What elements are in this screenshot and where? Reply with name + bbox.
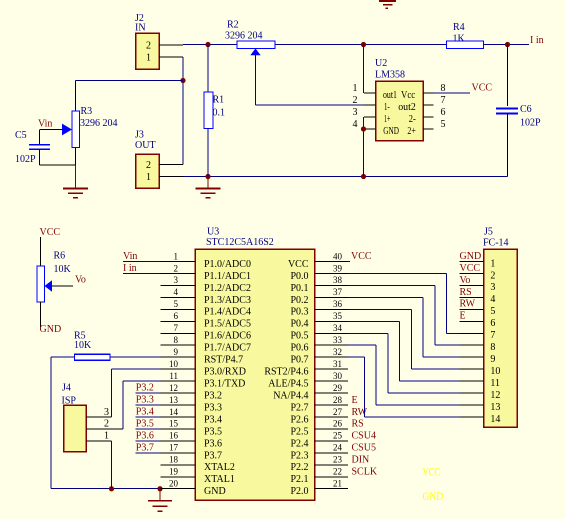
svg-text:P0.6: P0.6 — [290, 343, 308, 354]
svg-text:28: 28 — [333, 395, 343, 405]
svg-text:P2.1: P2.1 — [290, 474, 308, 485]
svg-text:21: 21 — [333, 479, 342, 489]
svg-text:14: 14 — [169, 407, 179, 417]
svg-text:P1.3/ADC3: P1.3/ADC3 — [204, 295, 251, 306]
svg-text:10K: 10K — [74, 340, 92, 351]
svg-text:24: 24 — [333, 443, 343, 453]
svg-text:2: 2 — [146, 40, 151, 51]
svg-text:1: 1 — [174, 251, 179, 261]
svg-text:7: 7 — [441, 95, 446, 106]
svg-text:P1.7/ADC7: P1.7/ADC7 — [204, 343, 251, 354]
svg-text:P2.3: P2.3 — [290, 450, 308, 461]
svg-text:38: 38 — [333, 275, 343, 285]
svg-text:0.1: 0.1 — [213, 108, 226, 119]
svg-text:3296 204: 3296 204 — [80, 118, 118, 129]
svg-text:33: 33 — [333, 335, 343, 345]
svg-text:P0.1: P0.1 — [290, 283, 308, 294]
svg-text:12: 12 — [490, 390, 500, 401]
svg-text:J4: J4 — [62, 383, 71, 394]
svg-text:6: 6 — [441, 107, 446, 118]
svg-text:23: 23 — [333, 455, 343, 465]
svg-text:IN: IN — [135, 23, 146, 34]
svg-text:P3.5: P3.5 — [136, 418, 154, 429]
svg-text:RS: RS — [352, 419, 364, 430]
svg-text:4: 4 — [490, 294, 495, 305]
svg-text:4: 4 — [174, 287, 179, 297]
svg-text:32: 32 — [333, 347, 342, 357]
svg-text:11: 11 — [490, 378, 500, 389]
svg-text:Vin: Vin — [123, 251, 137, 262]
svg-text:15: 15 — [169, 419, 179, 429]
svg-text:35: 35 — [333, 311, 343, 321]
svg-text:6: 6 — [174, 311, 179, 321]
svg-text:P1.5/ADC5: P1.5/ADC5 — [204, 319, 251, 330]
svg-text:P3.2: P3.2 — [136, 382, 154, 393]
svg-text:12: 12 — [169, 383, 178, 393]
svg-text:25: 25 — [333, 431, 343, 441]
svg-text:37: 37 — [333, 287, 343, 297]
svg-text:3: 3 — [104, 407, 109, 418]
svg-text:1: 1 — [490, 258, 495, 269]
svg-text:1: 1 — [146, 52, 151, 63]
svg-text:P3.6: P3.6 — [136, 430, 154, 441]
svg-text:102P: 102P — [520, 118, 541, 129]
svg-text:VCC: VCC — [472, 82, 493, 93]
svg-text:3: 3 — [353, 107, 358, 118]
svg-text:RW: RW — [460, 299, 476, 310]
svg-text:VCC: VCC — [351, 251, 372, 262]
svg-text:E: E — [460, 311, 466, 322]
svg-text:2: 2 — [353, 95, 358, 106]
svg-text:8: 8 — [174, 335, 179, 345]
svg-text:VCC: VCC — [288, 259, 309, 270]
svg-text:1+: 1+ — [384, 114, 391, 125]
svg-text:5: 5 — [490, 306, 495, 317]
svg-text:14: 14 — [490, 414, 500, 425]
svg-text:1-: 1- — [384, 102, 390, 113]
svg-text:GND: GND — [423, 491, 444, 503]
svg-text:P3.7: P3.7 — [204, 450, 222, 461]
svg-text:R3: R3 — [81, 106, 93, 117]
svg-text:SCLK: SCLK — [352, 467, 378, 478]
svg-text:2+: 2+ — [407, 126, 416, 137]
svg-text:22: 22 — [333, 467, 342, 477]
svg-text:R1: R1 — [213, 95, 225, 106]
svg-text:GND: GND — [40, 324, 62, 335]
svg-text:P1.1/ADC1: P1.1/ADC1 — [204, 271, 251, 282]
svg-text:P3.3: P3.3 — [136, 394, 154, 405]
svg-text:P0.5: P0.5 — [290, 331, 308, 342]
svg-text:40: 40 — [333, 251, 343, 261]
svg-text:P3.1/TXD: P3.1/TXD — [204, 379, 245, 390]
svg-text:P2.5: P2.5 — [290, 426, 308, 437]
svg-text:P1.0/ADC0: P1.0/ADC0 — [204, 259, 251, 270]
svg-text:GND: GND — [204, 486, 226, 497]
svg-text:out1: out1 — [383, 90, 397, 101]
svg-text:16: 16 — [169, 431, 179, 441]
svg-text:2: 2 — [146, 160, 151, 171]
svg-text:10: 10 — [169, 359, 179, 369]
svg-text:8: 8 — [490, 342, 495, 353]
svg-text:20: 20 — [169, 479, 179, 489]
svg-text:5: 5 — [174, 299, 179, 309]
svg-text:P0.7: P0.7 — [290, 355, 308, 366]
svg-text:P2.2: P2.2 — [290, 462, 308, 473]
svg-text:GND: GND — [460, 251, 482, 262]
svg-text:29: 29 — [333, 383, 343, 393]
svg-text:26: 26 — [333, 419, 343, 429]
svg-text:NA/P4.4: NA/P4.4 — [273, 390, 308, 401]
svg-text:36: 36 — [333, 299, 343, 309]
svg-text:P2.6: P2.6 — [290, 414, 308, 425]
svg-text:2-: 2- — [409, 114, 416, 125]
svg-text:9: 9 — [174, 347, 179, 357]
svg-text:1: 1 — [104, 431, 109, 442]
svg-text:31: 31 — [333, 359, 342, 369]
svg-text:2: 2 — [104, 419, 109, 430]
svg-text:P3.2: P3.2 — [204, 390, 222, 401]
svg-text:P2.0: P2.0 — [290, 486, 308, 497]
svg-text:10: 10 — [490, 366, 500, 377]
svg-text:CSU4: CSU4 — [352, 431, 376, 442]
svg-text:3: 3 — [490, 282, 495, 293]
svg-text:STC12C5A16S2: STC12C5A16S2 — [206, 237, 274, 248]
svg-text:2: 2 — [490, 270, 495, 281]
svg-text:Vo: Vo — [75, 275, 86, 286]
svg-text:P2.7: P2.7 — [290, 402, 308, 413]
svg-text:8: 8 — [441, 83, 446, 94]
svg-text:P1.6/ADC6: P1.6/ADC6 — [204, 331, 251, 342]
svg-text:P3.4: P3.4 — [204, 414, 222, 425]
svg-text:GND: GND — [383, 126, 399, 137]
svg-text:VCC: VCC — [460, 263, 481, 274]
svg-text:RST2/P4.6: RST2/P4.6 — [264, 367, 308, 378]
svg-text:E: E — [352, 395, 358, 406]
svg-text:VCC: VCC — [40, 227, 61, 238]
svg-text:C5: C5 — [15, 130, 27, 141]
svg-text:27: 27 — [333, 407, 343, 417]
svg-text:P3.3: P3.3 — [204, 402, 222, 413]
svg-text:DIN: DIN — [352, 455, 370, 466]
svg-text:out2: out2 — [398, 102, 416, 113]
svg-text:XTAL1: XTAL1 — [204, 474, 235, 485]
svg-text:R6: R6 — [54, 251, 66, 262]
svg-text:FC-14: FC-14 — [483, 238, 509, 249]
svg-text:P0.4: P0.4 — [290, 319, 308, 330]
svg-text:4: 4 — [353, 119, 358, 130]
svg-text:P0.2: P0.2 — [290, 295, 308, 306]
svg-text:P2.4: P2.4 — [290, 438, 308, 449]
svg-text:P0.0: P0.0 — [290, 271, 308, 282]
svg-text:10K: 10K — [54, 264, 72, 275]
svg-text:C6: C6 — [520, 104, 532, 115]
svg-text:19: 19 — [169, 467, 179, 477]
svg-text:I in: I in — [530, 35, 544, 46]
svg-text:17: 17 — [169, 443, 179, 453]
svg-text:R4: R4 — [453, 22, 465, 33]
svg-text:J3: J3 — [135, 130, 144, 141]
svg-text:7: 7 — [490, 330, 495, 341]
svg-text:1: 1 — [146, 172, 151, 183]
svg-text:7: 7 — [174, 323, 179, 333]
svg-text:Vo: Vo — [460, 275, 471, 286]
svg-text:P3.5: P3.5 — [204, 426, 222, 437]
svg-text:U3: U3 — [207, 227, 219, 238]
svg-text:RW: RW — [352, 407, 368, 418]
svg-text:13: 13 — [490, 402, 500, 413]
svg-text:P0.3: P0.3 — [290, 307, 308, 318]
svg-text:RST/P4.7: RST/P4.7 — [204, 355, 243, 366]
svg-text:30: 30 — [333, 371, 343, 381]
svg-text:2: 2 — [174, 263, 179, 273]
svg-text:Vin: Vin — [38, 118, 52, 129]
svg-text:U2: U2 — [375, 58, 387, 69]
svg-text:RS: RS — [460, 287, 472, 298]
svg-text:LM358: LM358 — [375, 70, 405, 81]
svg-text:P3.0/RXD: P3.0/RXD — [204, 367, 246, 378]
svg-text:102P: 102P — [15, 154, 36, 165]
svg-text:9: 9 — [490, 354, 495, 365]
svg-text:6: 6 — [490, 318, 495, 329]
svg-text:18: 18 — [169, 455, 179, 465]
svg-text:ALE/P4.5: ALE/P4.5 — [268, 379, 308, 390]
svg-text:J5: J5 — [484, 227, 493, 238]
svg-text:R2: R2 — [227, 20, 239, 31]
svg-text:P3.6: P3.6 — [204, 438, 222, 449]
svg-text:Vcc: Vcc — [401, 90, 416, 101]
svg-text:XTAL2: XTAL2 — [204, 462, 235, 473]
svg-text:P1.4/ADC4: P1.4/ADC4 — [204, 307, 251, 318]
svg-text:3296 204: 3296 204 — [225, 31, 263, 42]
svg-text:OUT: OUT — [135, 140, 156, 151]
svg-text:P3.4: P3.4 — [136, 406, 154, 417]
svg-text:I in: I in — [123, 263, 137, 274]
svg-text:P1.2/ADC2: P1.2/ADC2 — [204, 283, 251, 294]
svg-text:5: 5 — [441, 119, 446, 130]
svg-text:1: 1 — [353, 83, 358, 94]
svg-text:34: 34 — [333, 323, 343, 333]
svg-text:13: 13 — [169, 395, 179, 405]
svg-text:CSU5: CSU5 — [352, 443, 376, 454]
svg-text:VCC: VCC — [423, 466, 441, 478]
svg-text:P3.7: P3.7 — [136, 442, 154, 453]
svg-text:3: 3 — [174, 275, 179, 285]
svg-text:11: 11 — [169, 371, 178, 381]
svg-text:39: 39 — [333, 263, 343, 273]
